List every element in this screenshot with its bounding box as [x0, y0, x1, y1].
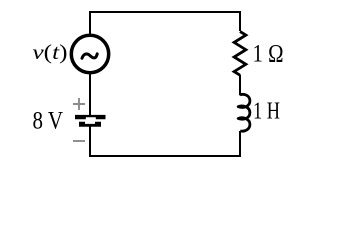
- wire top rail with corner stubs: [90, 12, 240, 35]
- resistor R1 zigzag: [234, 32, 246, 76]
- inductor L1 coils: [238, 94, 250, 131]
- battery minus sign: [73, 140, 85, 142]
- battery long plate: [75, 115, 106, 119]
- AC source U1 circle: [71, 35, 108, 72]
- svg-text:1 Ω: 1 Ω: [253, 39, 284, 68]
- battery short plate: [79, 122, 101, 127]
- svg-text:1 H: 1 H: [253, 98, 280, 125]
- battery plus sign: [73, 98, 85, 110]
- wire resistor to inductor: [239, 75, 241, 96]
- wire source to battery: [89, 73, 91, 115]
- svg-text:v(t): v(t): [33, 40, 68, 64]
- AC source sine tilde: [82, 54, 97, 58]
- wire battery to bottom rail: [90, 126, 240, 156]
- svg-text:8 V: 8 V: [33, 108, 64, 135]
